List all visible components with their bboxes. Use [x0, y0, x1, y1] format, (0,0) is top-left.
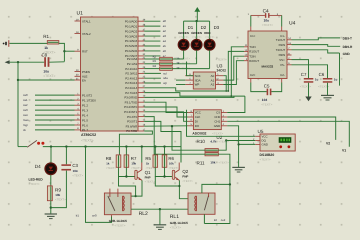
- U1 pin 37 (P0.2/AD2): [125, 28, 146, 33]
- U5 display screen: [279, 137, 292, 143]
- wire T2OUT to GND label: [292, 50, 340, 53]
- R7 ref label: [131, 156, 137, 161]
- U4 top pin 1: [250, 27, 252, 32]
- svg-text:C2-: C2-: [280, 73, 285, 77]
- relay RL1 body: [188, 193, 215, 214]
- svg-text:DB9-T: DB9-T: [343, 36, 352, 40]
- wire P1.4 net: [35, 114, 75, 116]
- node label ce0: [92, 213, 97, 217]
- svg-text:P2.2/A10: P2.2/A10: [125, 67, 137, 71]
- R9 ref label: [55, 187, 61, 192]
- svg-text:<TEXT>: <TEXT>: [55, 198, 66, 202]
- C5 value label: [262, 98, 268, 102]
- svg-text:P2.5/A13: P2.5/A13: [125, 81, 137, 85]
- wire switch VCC rail: [43, 146, 181, 148]
- node T1IN bus junction: [230, 95, 232, 97]
- node label a5: [163, 44, 167, 48]
- U4 internal pin name C1+: [250, 34, 256, 38]
- svg-text:<TEXT>: <TEXT>: [131, 167, 141, 170]
- svg-text:GREEN: GREEN: [191, 31, 202, 35]
- U3 pin 1 (A0): [211, 73, 224, 78]
- R11 value label: [210, 161, 215, 165]
- wire C5 right: [271, 83, 281, 92]
- svg-text:C4: C4: [263, 9, 269, 15]
- svg-text:R4: R4: [153, 65, 157, 68]
- svg-text:P1.0/T2: P1.0/T2: [82, 93, 93, 97]
- resistor R3: [160, 62, 173, 65]
- svg-text:SDA: SDA: [195, 78, 201, 82]
- D4 ref label: [35, 164, 41, 169]
- svg-text:C6: C6: [319, 72, 325, 77]
- U4 internal pin name VS+: [279, 58, 285, 62]
- node DQ junction: [225, 139, 227, 141]
- wire D3 cathode: [209, 50, 211, 68]
- svg-text:R3: R3: [153, 60, 157, 63]
- ground terminal arrow left: [5, 60, 10, 64]
- wire R10 to DQ: [218, 141, 226, 151]
- svg-text:P0.5/AD5: P0.5/AD5: [125, 44, 138, 48]
- svg-text:1u: 1u: [315, 78, 319, 82]
- resistor R6: [162, 155, 167, 167]
- U3 pin 2 (A1): [211, 78, 224, 83]
- wire R2 to LED D1: [172, 58, 183, 60]
- svg-text:P3.7/RD: P3.7/RD: [126, 129, 137, 133]
- capacitor C3: [61, 164, 71, 170]
- svg-text:CS: CS: [216, 111, 220, 115]
- D1 colour label GREEN: [178, 31, 189, 35]
- wire rail to C3: [65, 147, 67, 165]
- svg-text:1k: 1k: [146, 162, 150, 166]
- resistor R11: [205, 153, 218, 156]
- svg-text:<TEXT>: <TEXT>: [81, 139, 94, 143]
- R4 value label: [176, 66, 180, 70]
- R5 value label: [146, 162, 150, 166]
- U1 pin 16 (P3.6/WR): [126, 124, 146, 129]
- wire C7 to ground arrow: [308, 83, 310, 97]
- svg-text:P3.1/TXD: P3.1/TXD: [125, 100, 138, 104]
- wire U5 GND net: [239, 143, 256, 145]
- svg-text:Q1: Q1: [145, 170, 151, 175]
- svg-text:P1.4: P1.4: [82, 113, 88, 117]
- U4 bottom pin 4: [250, 79, 252, 83]
- power symbol +5V arrow: [194, 7, 200, 21]
- svg-text:sda: sda: [163, 76, 168, 80]
- node label ck: [23, 128, 26, 132]
- RL2 bottom pin: [111, 215, 113, 217]
- U4 internal pin name C1-: [280, 34, 285, 38]
- svg-text:D2: D2: [201, 25, 207, 30]
- svg-text:P3.4/T0: P3.4/T0: [127, 115, 138, 119]
- U1 pin 35 (P0.4/AD4): [125, 38, 146, 43]
- svg-text:R2IN: R2IN: [279, 53, 286, 57]
- node b1 junction: [84, 145, 86, 147]
- wire U3 A1 to T2IN: [223, 56, 244, 80]
- D4 label LED-RED: [29, 177, 44, 181]
- wire D3 anode: [209, 21, 211, 39]
- U1 part-number label AT89C52: [81, 133, 96, 137]
- wire P3.1 to U2 VCC: [144, 102, 187, 112]
- U4 bottom pin 5: [281, 79, 283, 83]
- Q2 text label: [182, 179, 193, 183]
- svg-text:U5: U5: [258, 129, 264, 134]
- svg-text:P1.2: P1.2: [82, 104, 88, 108]
- RL2 text label: [114, 224, 125, 228]
- C6 ref label: [319, 72, 325, 77]
- wire P2.7 to T1IN bus: [144, 93, 245, 97]
- D2 colour label GREEN: [191, 31, 202, 35]
- RL2 coil: [123, 196, 125, 211]
- R5 text label: [146, 167, 156, 170]
- U2 pin 2 (CH0): [214, 114, 227, 119]
- svg-text:1k: 1k: [106, 162, 110, 166]
- RL2 ref label: [139, 211, 148, 217]
- node label ca4: [23, 113, 28, 117]
- svg-text:P3.6/WR: P3.6/WR: [126, 124, 138, 128]
- wire Q1 emitter to RL2 coil: [131, 180, 142, 196]
- wire P1.5 net: [35, 119, 75, 121]
- switch SW1 contact right: [41, 142, 44, 145]
- wire C3 to R9 ground: [51, 171, 67, 208]
- node C3 junction: [65, 145, 67, 147]
- C3 text label: [72, 173, 83, 177]
- node label a7: [163, 54, 167, 58]
- wire U3 WP net: [176, 84, 185, 86]
- svg-text:<TEXT>: <TEXT>: [170, 226, 181, 230]
- wire P1.1 net: [35, 99, 75, 101]
- U4 pin 9 (R2OUT): [244, 58, 259, 63]
- U5 button minus: [288, 145, 291, 148]
- C3 ref label: [72, 163, 78, 168]
- svg-text:104: 104: [262, 98, 268, 102]
- svg-text:10k: 10k: [210, 161, 215, 165]
- R6 value label: [169, 162, 174, 166]
- U1 value label <TEXT>: [81, 139, 94, 143]
- svg-text:DO: DO: [195, 124, 200, 128]
- svg-text:<TEXT>: <TEXT>: [114, 224, 125, 228]
- wire battery to R1: [10, 42, 48, 44]
- U4 pin 12 (R1OUT): [244, 49, 259, 54]
- svg-text:P2.7/A15: P2.7/A15: [125, 91, 137, 95]
- U1 ref label: [77, 11, 84, 17]
- D1 text label: [179, 36, 189, 39]
- C4 value label: [264, 19, 270, 23]
- U1 pin 32 (P0.7/AD7): [125, 53, 146, 58]
- node U5 GND junction: [237, 143, 239, 145]
- C4 ref label: [263, 9, 269, 15]
- svg-text:a6: a6: [163, 49, 167, 53]
- svg-text:D1: D1: [188, 25, 194, 30]
- svg-text:GND: GND: [214, 124, 220, 128]
- U5 text label: [260, 158, 271, 162]
- svg-text:DS18B20: DS18B20: [260, 153, 275, 157]
- U2 pin 1 (CS): [216, 110, 227, 115]
- wire P0.1 net: [144, 25, 160, 27]
- R11 text label: [219, 161, 230, 165]
- U2 pin 3 (CH1): [214, 119, 227, 124]
- svg-text:P2.0/A8: P2.0/A8: [127, 57, 138, 61]
- U3 pin 7 (WP): [185, 82, 199, 87]
- IC U2 ADC0832 body: [193, 110, 221, 130]
- U2 pin 4 (GND): [214, 123, 227, 128]
- D3 text label: [205, 36, 215, 39]
- U1 pin 28 (P2.7/A15): [125, 90, 146, 95]
- U3 part label 24C02: [217, 68, 227, 72]
- node label ca1: [23, 98, 28, 102]
- C5 ref label: [264, 84, 270, 89]
- svg-text:<TEXT>: <TEXT>: [219, 161, 230, 165]
- wire U2 CH1 to V1: [227, 121, 349, 146]
- node label V1: [342, 148, 346, 152]
- svg-text:scl: scl: [163, 71, 167, 75]
- svg-text:P2.6/A14: P2.6/A14: [125, 86, 137, 90]
- U5 label DS18B20: [260, 153, 275, 157]
- svg-text:T1OUT: T1OUT: [276, 38, 286, 42]
- node R1OUT bus junction: [227, 90, 229, 92]
- svg-text:R7: R7: [131, 156, 137, 161]
- svg-text:R8: R8: [106, 156, 112, 161]
- svg-text:T2OUT: T2OUT: [276, 48, 286, 52]
- svg-text:P1.7: P1.7: [82, 128, 88, 132]
- svg-text:<TEXT>: <TEXT>: [260, 158, 271, 162]
- LED D4: [45, 163, 57, 175]
- C7 ref label: [301, 72, 307, 77]
- wire U3 SCK net: [187, 62, 194, 76]
- capacitor C7: [304, 78, 314, 83]
- wire R1OUT to P3.0: [228, 51, 244, 91]
- svg-text:P0.2/AD2: P0.2/AD2: [125, 29, 138, 33]
- svg-text:R1OUT: R1OUT: [249, 50, 259, 54]
- U2 text label: [212, 131, 223, 135]
- svg-text:P1.5: P1.5: [82, 118, 88, 122]
- ground below U2: [232, 167, 245, 172]
- node R5 emitter junction: [178, 185, 180, 187]
- node label b1: [76, 213, 80, 217]
- svg-text:<TEXT>: <TEXT>: [106, 167, 116, 170]
- svg-text:CH1: CH1: [214, 120, 220, 124]
- R1 text label: [43, 51, 55, 55]
- U1 pin 2 (P1.1/T2EX): [75, 97, 97, 102]
- LED D1: [178, 39, 189, 50]
- D2 text label: [192, 36, 202, 39]
- svg-text:VS+: VS+: [279, 58, 285, 62]
- svg-text:<TEXT>: <TEXT>: [169, 167, 179, 170]
- battery B1 (cell symbol): [3, 40, 10, 47]
- wire P0.2 net: [144, 30, 160, 32]
- U4 pin 7 (T2OUT): [276, 47, 292, 52]
- svg-text:24C02: 24C02: [217, 68, 227, 72]
- U1 pin 27 (P2.6/A14): [125, 85, 146, 90]
- svg-text:<TEXT>: <TEXT>: [29, 182, 40, 186]
- svg-text:mgi: mgi: [23, 123, 28, 127]
- node RST junction: [63, 50, 65, 52]
- wire P0.6 net: [144, 50, 160, 52]
- wire P3.4 to R11: [144, 117, 205, 155]
- wire D1 anode: [183, 21, 185, 39]
- node label a0: [163, 19, 167, 23]
- wire U2 CH0 to V2: [227, 117, 336, 140]
- U2 pin 8 (VCC): [188, 110, 201, 115]
- node label ca3: [23, 108, 28, 112]
- C4 text label: [262, 23, 273, 27]
- svg-text:R1IN: R1IN: [279, 43, 286, 47]
- node label a6: [163, 49, 167, 53]
- svg-text:<TEXT>: <TEXT>: [300, 85, 311, 89]
- svg-text:GND: GND: [262, 143, 268, 147]
- R4 ref label: [153, 65, 157, 68]
- C6 value label: [334, 78, 338, 82]
- wire P2.3 net: [144, 72, 161, 74]
- wire T1IN net: [231, 47, 244, 96]
- R10 text label: [219, 140, 230, 144]
- U4 internal pin name VS-: [280, 63, 285, 67]
- U4 pin 13 (R1IN): [279, 42, 292, 47]
- svg-text:R1: R1: [43, 34, 49, 39]
- IC U4 MAX232 body: [248, 31, 287, 79]
- svg-text:4.7k: 4.7k: [210, 140, 216, 144]
- svg-text:<TEXT>: <TEXT>: [43, 74, 55, 78]
- R7 text label: [131, 167, 141, 170]
- U1 pin 3 (P1.2): [75, 103, 89, 108]
- U1 pin 33 (P0.6/AD6): [125, 48, 146, 53]
- node label scl: [163, 71, 167, 75]
- U2 ref label: [216, 135, 222, 140]
- U1 pin 19 (XTAL1): [75, 18, 92, 23]
- resistor R5: [153, 155, 158, 167]
- svg-text:wp: wp: [163, 81, 167, 85]
- svg-text:SCK: SCK: [195, 74, 201, 78]
- U1 pin 4 (P1.3): [75, 107, 89, 112]
- wire D2 anode: [196, 21, 198, 39]
- svg-text:P3.5/T1: P3.5/T1: [127, 120, 138, 124]
- svg-text:104: 104: [73, 169, 78, 173]
- svg-text:ca4: ca4: [23, 113, 28, 117]
- wire arrow terminal to C8: [10, 61, 45, 63]
- wire P3.2 to U2 CLK: [144, 107, 187, 117]
- svg-text:P1.1/T2EX: P1.1/T2EX: [82, 98, 96, 102]
- node label ca0: [23, 93, 28, 97]
- svg-text:a1: a1: [163, 24, 167, 28]
- C7 value label: [315, 78, 319, 82]
- R2 ref label: [153, 55, 157, 58]
- ground below R9: [45, 214, 57, 219]
- wire RST node to U1 RST pin: [64, 50, 74, 52]
- wire GND label stub: [339, 53, 341, 86]
- U1 pin 10 (P3.0/RXD): [124, 95, 146, 100]
- U5 pin 3 (VCC): [253, 134, 268, 139]
- Q1 text label: [145, 180, 156, 184]
- wire R1 to RST node: [59, 43, 65, 61]
- capacitor C6: [323, 78, 333, 83]
- node R6 rail junction: [163, 145, 165, 147]
- R4 text label: [180, 67, 190, 70]
- svg-text:DB9-R: DB9-R: [343, 45, 353, 49]
- wire rail to Q1 collector: [141, 147, 143, 163]
- svg-text:k2: k2: [214, 218, 217, 222]
- wire P2.4 net: [144, 77, 161, 79]
- wire D4 to R9: [50, 175, 52, 186]
- wire R9 to ground: [50, 201, 52, 214]
- capacitor C8: [41, 54, 49, 67]
- wire U3 A2 to R2OUT: [223, 61, 244, 85]
- Q2 ref label: [182, 169, 188, 174]
- transistor Q2: [172, 163, 179, 181]
- node Q1 base junction: [125, 175, 127, 177]
- svg-text:A1: A1: [211, 78, 215, 82]
- U1 pin 6 (P1.5): [75, 117, 89, 122]
- wire P0.7 net: [144, 55, 160, 57]
- RL1 switch lever: [204, 193, 208, 210]
- svg-text:GND: GND: [343, 52, 351, 56]
- svg-text:P3.2/INT0: P3.2/INT0: [124, 105, 137, 109]
- RL1 coil: [195, 196, 197, 211]
- R6 text label: [169, 167, 179, 170]
- U4 pin 8 (R2IN): [279, 52, 292, 57]
- wire U2 GND down: [227, 126, 238, 167]
- transistor Q1: [135, 163, 142, 181]
- wire EA net to U1 EA pin: [18, 79, 75, 81]
- svg-text:C3: C3: [72, 163, 78, 168]
- svg-text:RED: RED: [204, 31, 211, 35]
- U4 pin 6 (VS-): [287, 62, 292, 65]
- wire P0.5 net: [144, 45, 160, 47]
- svg-text:R6: R6: [168, 156, 174, 161]
- wire P3.6 tap to R10: [172, 126, 205, 150]
- U1 pin 39 (P0.0/AD0): [125, 19, 146, 24]
- C8 ref label: [42, 53, 48, 58]
- U1 pin 12 (P3.2/INT0): [124, 104, 146, 109]
- wire P0.0 net: [144, 20, 160, 22]
- C8 value label: [43, 70, 49, 74]
- U1 pin 1 (P1.0/T2): [75, 92, 93, 97]
- svg-text:b1: b1: [76, 213, 80, 217]
- wire P3.0 to bus: [144, 96, 234, 97]
- RL1 text label: [170, 226, 181, 230]
- wire U5 DQ net: [226, 140, 255, 142]
- svg-text:U4: U4: [289, 21, 296, 27]
- node label wp: [163, 81, 167, 85]
- resistor R7: [124, 155, 129, 167]
- U1 pin 5 (P1.4): [75, 112, 89, 117]
- IC U1 AT89C52 microcontroller body: [81, 17, 139, 131]
- switch SW1 contact left: [37, 142, 40, 145]
- svg-text:C8: C8: [42, 53, 48, 58]
- wire C4 left: [251, 15, 265, 26]
- U4 internal pin name C2-: [280, 73, 285, 77]
- svg-text:P1.6: P1.6: [82, 123, 88, 127]
- svg-text:<TEXT>: <TEXT>: [192, 36, 202, 39]
- node D4 junction: [50, 145, 52, 147]
- R3 value label: [176, 61, 180, 65]
- svg-text:a4: a4: [163, 39, 167, 43]
- capacitor C4: [265, 13, 270, 18]
- wire P3.6 to U2 DO: [144, 125, 187, 127]
- node label mgi: [23, 123, 28, 127]
- Q2 part label PNP: [182, 175, 188, 179]
- D3 colour label RED: [204, 31, 211, 35]
- C6 text label: [318, 85, 329, 89]
- svg-text:<TEXT>: <TEXT>: [261, 102, 272, 106]
- ground below relays: [154, 225, 167, 230]
- RL2 contact pin top 2: [117, 189, 119, 193]
- wire C5 left: [251, 83, 267, 92]
- wire P1.3 net: [35, 109, 75, 111]
- resistor R4: [160, 67, 173, 70]
- svg-text:<TEXT>: <TEXT>: [145, 180, 156, 184]
- R11 ref label: [197, 160, 206, 165]
- wire R11 right down: [204, 154, 230, 223]
- node label ce2: [221, 218, 226, 222]
- svg-text:RL1: RL1: [170, 214, 179, 220]
